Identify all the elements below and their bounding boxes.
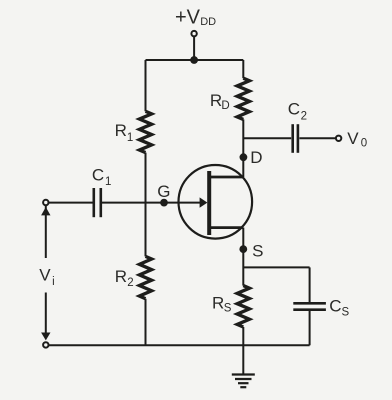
svg-text:R: R [115, 267, 127, 286]
svg-text:S: S [342, 306, 350, 318]
svg-text:+V: +V [175, 6, 201, 28]
svg-text:D: D [250, 148, 262, 167]
svg-text:S: S [224, 302, 232, 314]
svg-text:R: R [210, 91, 222, 110]
svg-text:V: V [39, 265, 51, 284]
svg-text:C: C [329, 296, 341, 315]
svg-text:2: 2 [127, 277, 133, 289]
svg-text:0: 0 [361, 137, 367, 149]
svg-text:S: S [252, 241, 263, 260]
svg-text:DD: DD [200, 16, 216, 28]
svg-text:1: 1 [127, 132, 133, 144]
svg-text:G: G [157, 182, 170, 201]
svg-text:C: C [288, 100, 300, 119]
svg-text:R: R [115, 121, 127, 140]
svg-text:R: R [212, 293, 224, 312]
svg-text:V: V [347, 129, 359, 148]
svg-text:1: 1 [105, 176, 111, 188]
svg-text:D: D [221, 100, 229, 112]
svg-text:C: C [92, 166, 104, 185]
svg-text:i: i [52, 276, 55, 288]
svg-text:2: 2 [301, 111, 307, 123]
